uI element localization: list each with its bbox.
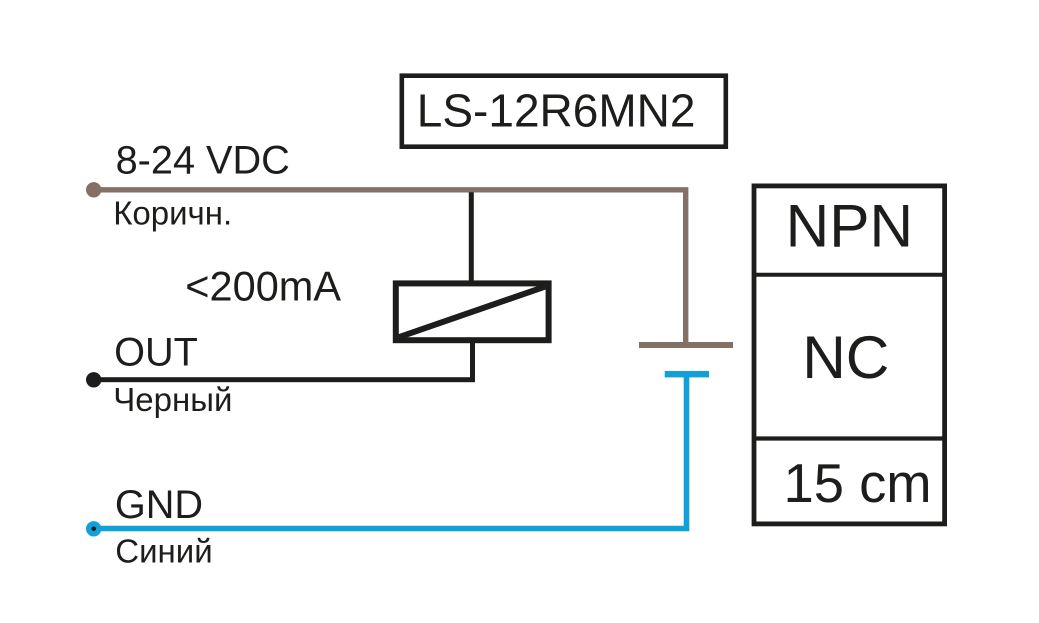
spec table: divider under NPN — [754, 273, 945, 277]
capacitor plate: blue bottom plate — [665, 371, 709, 377]
node: brown terminal dot (8-24 VDC) — [86, 182, 101, 197]
svg-text:NC: NC — [802, 323, 889, 391]
svg-text:LS-12R6MN2: LS-12R6MN2 — [417, 85, 696, 137]
svg-text:8-24 VDC: 8-24 VDC — [116, 139, 290, 183]
svg-text:NPN: NPN — [786, 191, 914, 259]
wire: brown supply wire (horizontal + vertical drop) — [94, 190, 686, 345]
svg-text:OUT: OUT — [114, 330, 198, 374]
svg-text:GND: GND — [115, 483, 203, 527]
wire: black vertical from load box to OUT wire — [470, 341, 475, 382]
wire: blue GND wire (vertical + horizontal) — [94, 373, 687, 529]
svg-text:Коричн.: Коричн. — [113, 194, 232, 231]
wire: black OUT horizontal wire — [94, 377, 475, 382]
node: blue terminal dot (GND) — [86, 521, 101, 536]
svg-text:15 cm: 15 cm — [784, 453, 932, 514]
label: model box LS-12R6MN2 — [402, 76, 726, 147]
svg-text:<200mA: <200mA — [185, 262, 341, 309]
wire: black vertical from brown wire to load box — [469, 192, 474, 282]
node: small black center of blue dot — [91, 527, 96, 532]
capacitor plate: brown top plate — [639, 342, 733, 348]
load/relay L1: rectangle with diagonal — [396, 283, 549, 340]
spec table: outer box — [754, 186, 945, 524]
node: black terminal dot (OUT) — [86, 372, 101, 387]
spec table: divider above 15 cm — [754, 436, 945, 440]
svg-text:Синий: Синий — [115, 533, 212, 570]
svg-text:Черный: Черный — [113, 381, 232, 418]
